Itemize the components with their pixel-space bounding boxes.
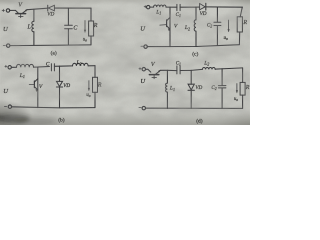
terminal bottom-left (a) (7, 44, 10, 47)
diode VD (a) (47, 5, 49, 11)
terminal top-left (d) (142, 68, 145, 71)
scan grain (0, 0, 250, 125)
terminal top-left (a) (6, 9, 9, 12)
transistor V (a) (16, 10, 19, 13)
resistor R (b) (94, 66, 96, 78)
inductor L2 (b) (73, 63, 89, 66)
bottom wire (b) (11, 107, 95, 108)
wire (150, 6, 154, 8)
transistor V (c) (169, 7, 171, 46)
terminal bottom-left (d) (142, 106, 145, 109)
wire (166, 6, 177, 8)
bottom wire (c) (147, 45, 239, 47)
resistor R (a) (90, 8, 92, 21)
diode VD (b) (59, 66, 61, 81)
plus sign (d) (139, 68, 141, 70)
capacitor C (b) (51, 64, 54, 71)
wire (196, 6, 200, 8)
inductor L1 (c) (154, 5, 166, 7)
diode VD (c) (200, 4, 206, 10)
node A leg + inductor L (a) (33, 9, 35, 21)
capacitor C (a) (67, 8, 69, 25)
capacitor C2 (d) (221, 69, 223, 86)
u_o arrow (c) (228, 20, 230, 30)
wire (160, 69, 177, 71)
wire (10, 9, 16, 11)
plus sign (c) (144, 6, 146, 8)
terminal top-left (c) (147, 5, 150, 8)
terminal bottom-left (c) (144, 45, 147, 48)
wire to diode (27, 8, 47, 10)
bottom wire (a) (10, 44, 91, 47)
u_o arrow (a) (84, 21, 86, 32)
u_o arrow (b) (88, 81, 90, 90)
resistor R (c) (240, 7, 242, 17)
wire (34, 66, 50, 69)
resistor R (d) (242, 68, 244, 83)
wire (60, 65, 73, 67)
capacitor C1 (d) (177, 66, 180, 74)
wire (191, 69, 202, 70)
wire (11, 66, 16, 68)
bottom wire (d) (145, 107, 242, 109)
terminal bottom-left (b) (8, 105, 11, 108)
plus sign (b) (5, 65, 7, 67)
wire (88, 65, 95, 67)
page shadow smudge bottom-left (0, 114, 56, 125)
diode VD (d) (190, 70, 192, 84)
inductor L2 (d) (202, 68, 215, 70)
inductor L1 (b) (17, 64, 34, 67)
transistor V (d) (145, 69, 150, 72)
transistor V (b) (37, 67, 39, 108)
inductor L1 vertical (d) (166, 70, 168, 83)
capacitor C2 (c) (216, 7, 218, 22)
inductor L2 vertical (c) (195, 7, 197, 20)
capacitor C1 (c) (177, 4, 180, 10)
terminal top-left (b) (8, 66, 11, 69)
wire (215, 68, 242, 69)
u_o arrow (d) (236, 84, 238, 92)
wire (54, 7, 91, 9)
plus sign (a) (2, 9, 4, 11)
